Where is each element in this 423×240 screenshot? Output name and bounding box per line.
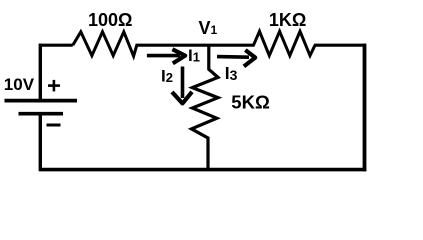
svg-text:I2: I2 [161,66,173,85]
resistor R1 100Ω zigzag [73,32,137,56]
svg-text:V1: V1 [199,18,218,38]
resistor R3 5KΩ branch: top lead and zigzag and bottom lead [192,45,219,169]
battery plus sign [48,80,60,92]
current arrow I1 [147,49,185,63]
battery V1 10V positive plate [5,99,78,103]
svg-text:I3: I3 [225,63,238,83]
current arrow I3 [217,50,255,66]
svg-text:100Ω: 100Ω [88,10,132,30]
svg-text:10V: 10V [4,75,35,94]
wire: right vertical segment [363,44,367,172]
wire: top-left horizontal segment [39,44,73,47]
wire: top-right horizontal segment [314,44,366,47]
wire: top middle horizontal segment [136,44,255,47]
battery minus sign [47,124,61,127]
resistor R2 1KΩ zigzag [254,31,316,55]
svg-text:5KΩ: 5KΩ [231,91,270,112]
wire: left vertical lower segment [39,114,42,171]
battery V1 10V negative plate [19,112,64,116]
svg-text:1KΩ: 1KΩ [269,10,306,30]
wire: left vertical upper segment [39,44,42,101]
current arrow I2 [172,67,192,104]
svg-text:I1: I1 [188,46,200,65]
wire: bottom horizontal segment [39,168,366,172]
